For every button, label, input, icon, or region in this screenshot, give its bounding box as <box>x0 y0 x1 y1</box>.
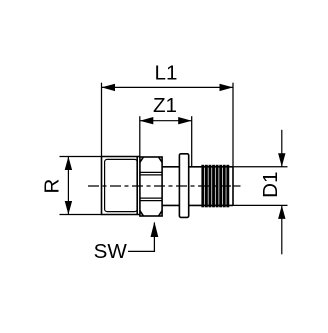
extension line L1 left <box>101 83 103 156</box>
dimension R line <box>67 157 69 215</box>
leader SW arrow <box>151 222 159 237</box>
dimension L1 arrow left <box>102 84 116 91</box>
dimension L1 arrow right <box>220 84 234 91</box>
extension line R top <box>60 156 102 158</box>
svg-text:R: R <box>41 179 64 194</box>
dimension D1 arrow top <box>281 130 283 167</box>
svg-text:L1: L1 <box>155 61 178 84</box>
svg-text:Z1: Z1 <box>153 94 177 117</box>
extension line R bottom <box>60 214 102 216</box>
extension line L1 right / pipe end face <box>232 83 234 167</box>
spigot ribs <box>201 165 229 208</box>
svg-text:D1: D1 <box>259 172 282 198</box>
extension line D1 bottom <box>233 204 288 206</box>
dimension Z1 arrow left <box>140 117 154 124</box>
centerline <box>88 185 231 187</box>
stop collar <box>179 154 188 218</box>
svg-text:SW: SW <box>94 240 128 263</box>
extension line D1 top <box>233 166 288 168</box>
thread body M1 outer contour <box>101 157 140 215</box>
extension line Z1 left <box>139 116 141 157</box>
hex flat edge lines <box>140 172 162 200</box>
dimension Z1 arrow right <box>178 117 192 124</box>
dimension R arrow up <box>65 157 72 171</box>
thread root line <box>105 159 138 211</box>
dimension Z1 line <box>140 120 192 122</box>
centerline end dash <box>233 185 241 187</box>
dimension D1 arrow bottom <box>281 205 283 254</box>
extension line Z1 right <box>191 116 193 166</box>
hex nut SW outline <box>140 157 162 216</box>
leader SW <box>128 223 154 252</box>
dimension R arrow down <box>65 201 72 215</box>
neck between hex and collar <box>162 167 179 206</box>
dimension L1 line <box>102 86 234 88</box>
pipe spigot core <box>189 167 233 206</box>
